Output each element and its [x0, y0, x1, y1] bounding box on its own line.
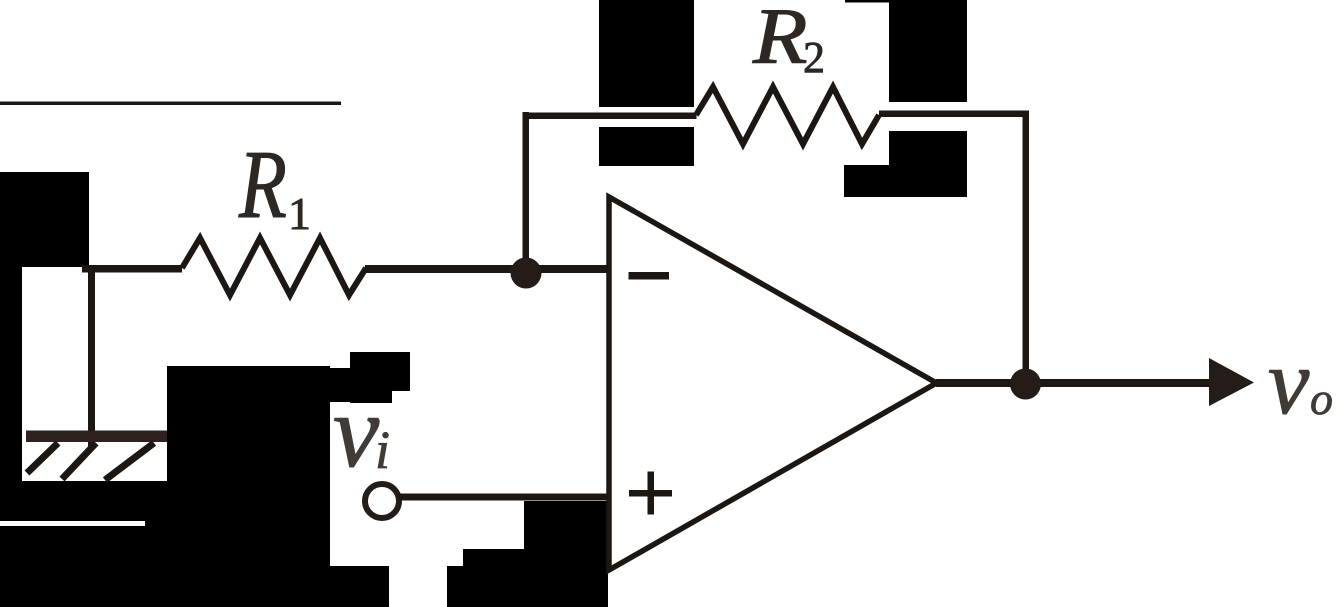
wire feedback vertical left — [523, 112, 530, 273]
wire down to ground — [88, 268, 95, 447]
svg-text:o: o — [1310, 373, 1333, 424]
svg-text:2: 2 — [803, 33, 825, 82]
wire feedback top right segment — [879, 111, 1029, 118]
scan artifact blob above vi right — [392, 352, 410, 391]
scan artifact block top left of R2 — [599, 0, 694, 107]
scan artifact block center bottom — [167, 366, 330, 607]
op-amp plus sign — [629, 472, 672, 515]
scan artifact thin strip top — [845, 0, 967, 3]
scan artifact step block — [330, 368, 351, 402]
scan artifact block below plus input — [524, 501, 608, 607]
resistor R2 — [696, 87, 879, 144]
node B junction dot (output) — [1010, 369, 1041, 400]
wire feedback vertical right — [1023, 111, 1030, 385]
op-amp minus sign — [629, 272, 670, 280]
scan artifact block top right of R2 — [889, 0, 967, 102]
svg-text:1: 1 — [288, 188, 311, 239]
wire from ground branch to resistor R1 — [82, 265, 182, 273]
scan artifact white line in bottom left block — [0, 521, 145, 526]
scan artifact block left big — [0, 172, 89, 267]
output arrow head — [1209, 358, 1254, 406]
svg-text:R: R — [752, 0, 808, 81]
scan artifact block below R2 right — [889, 131, 967, 197]
svg-text:R: R — [238, 131, 287, 239]
ground — [26, 431, 167, 481]
terminal vi input circle — [365, 484, 399, 518]
wire vi to non-inverting input — [399, 494, 609, 501]
scan artifact block below vi — [327, 566, 389, 607]
scan artifact block below feedback wire left — [599, 127, 694, 166]
svg-text:v: v — [1268, 331, 1310, 434]
svg-text:v: v — [333, 374, 380, 489]
scan artifact block bottom left — [0, 481, 167, 607]
scan artifact block extension left — [844, 165, 889, 197]
op-amp U1 — [609, 197, 937, 570]
scan artifact block below plus input step2 — [447, 566, 463, 607]
scan artifact blob above vi — [350, 352, 392, 403]
resistor R1 — [182, 238, 366, 295]
wire from resistor R1 to inverting input node — [365, 265, 608, 273]
scan artifact strip left edge — [0, 267, 22, 481]
top rule line — [0, 102, 341, 106]
wire feedback top left segment — [523, 113, 697, 120]
wire output — [936, 379, 1210, 387]
node A junction dot (inverting input) — [511, 258, 542, 289]
scan artifact block below plus input step — [463, 549, 524, 607]
svg-text:i: i — [375, 420, 390, 480]
